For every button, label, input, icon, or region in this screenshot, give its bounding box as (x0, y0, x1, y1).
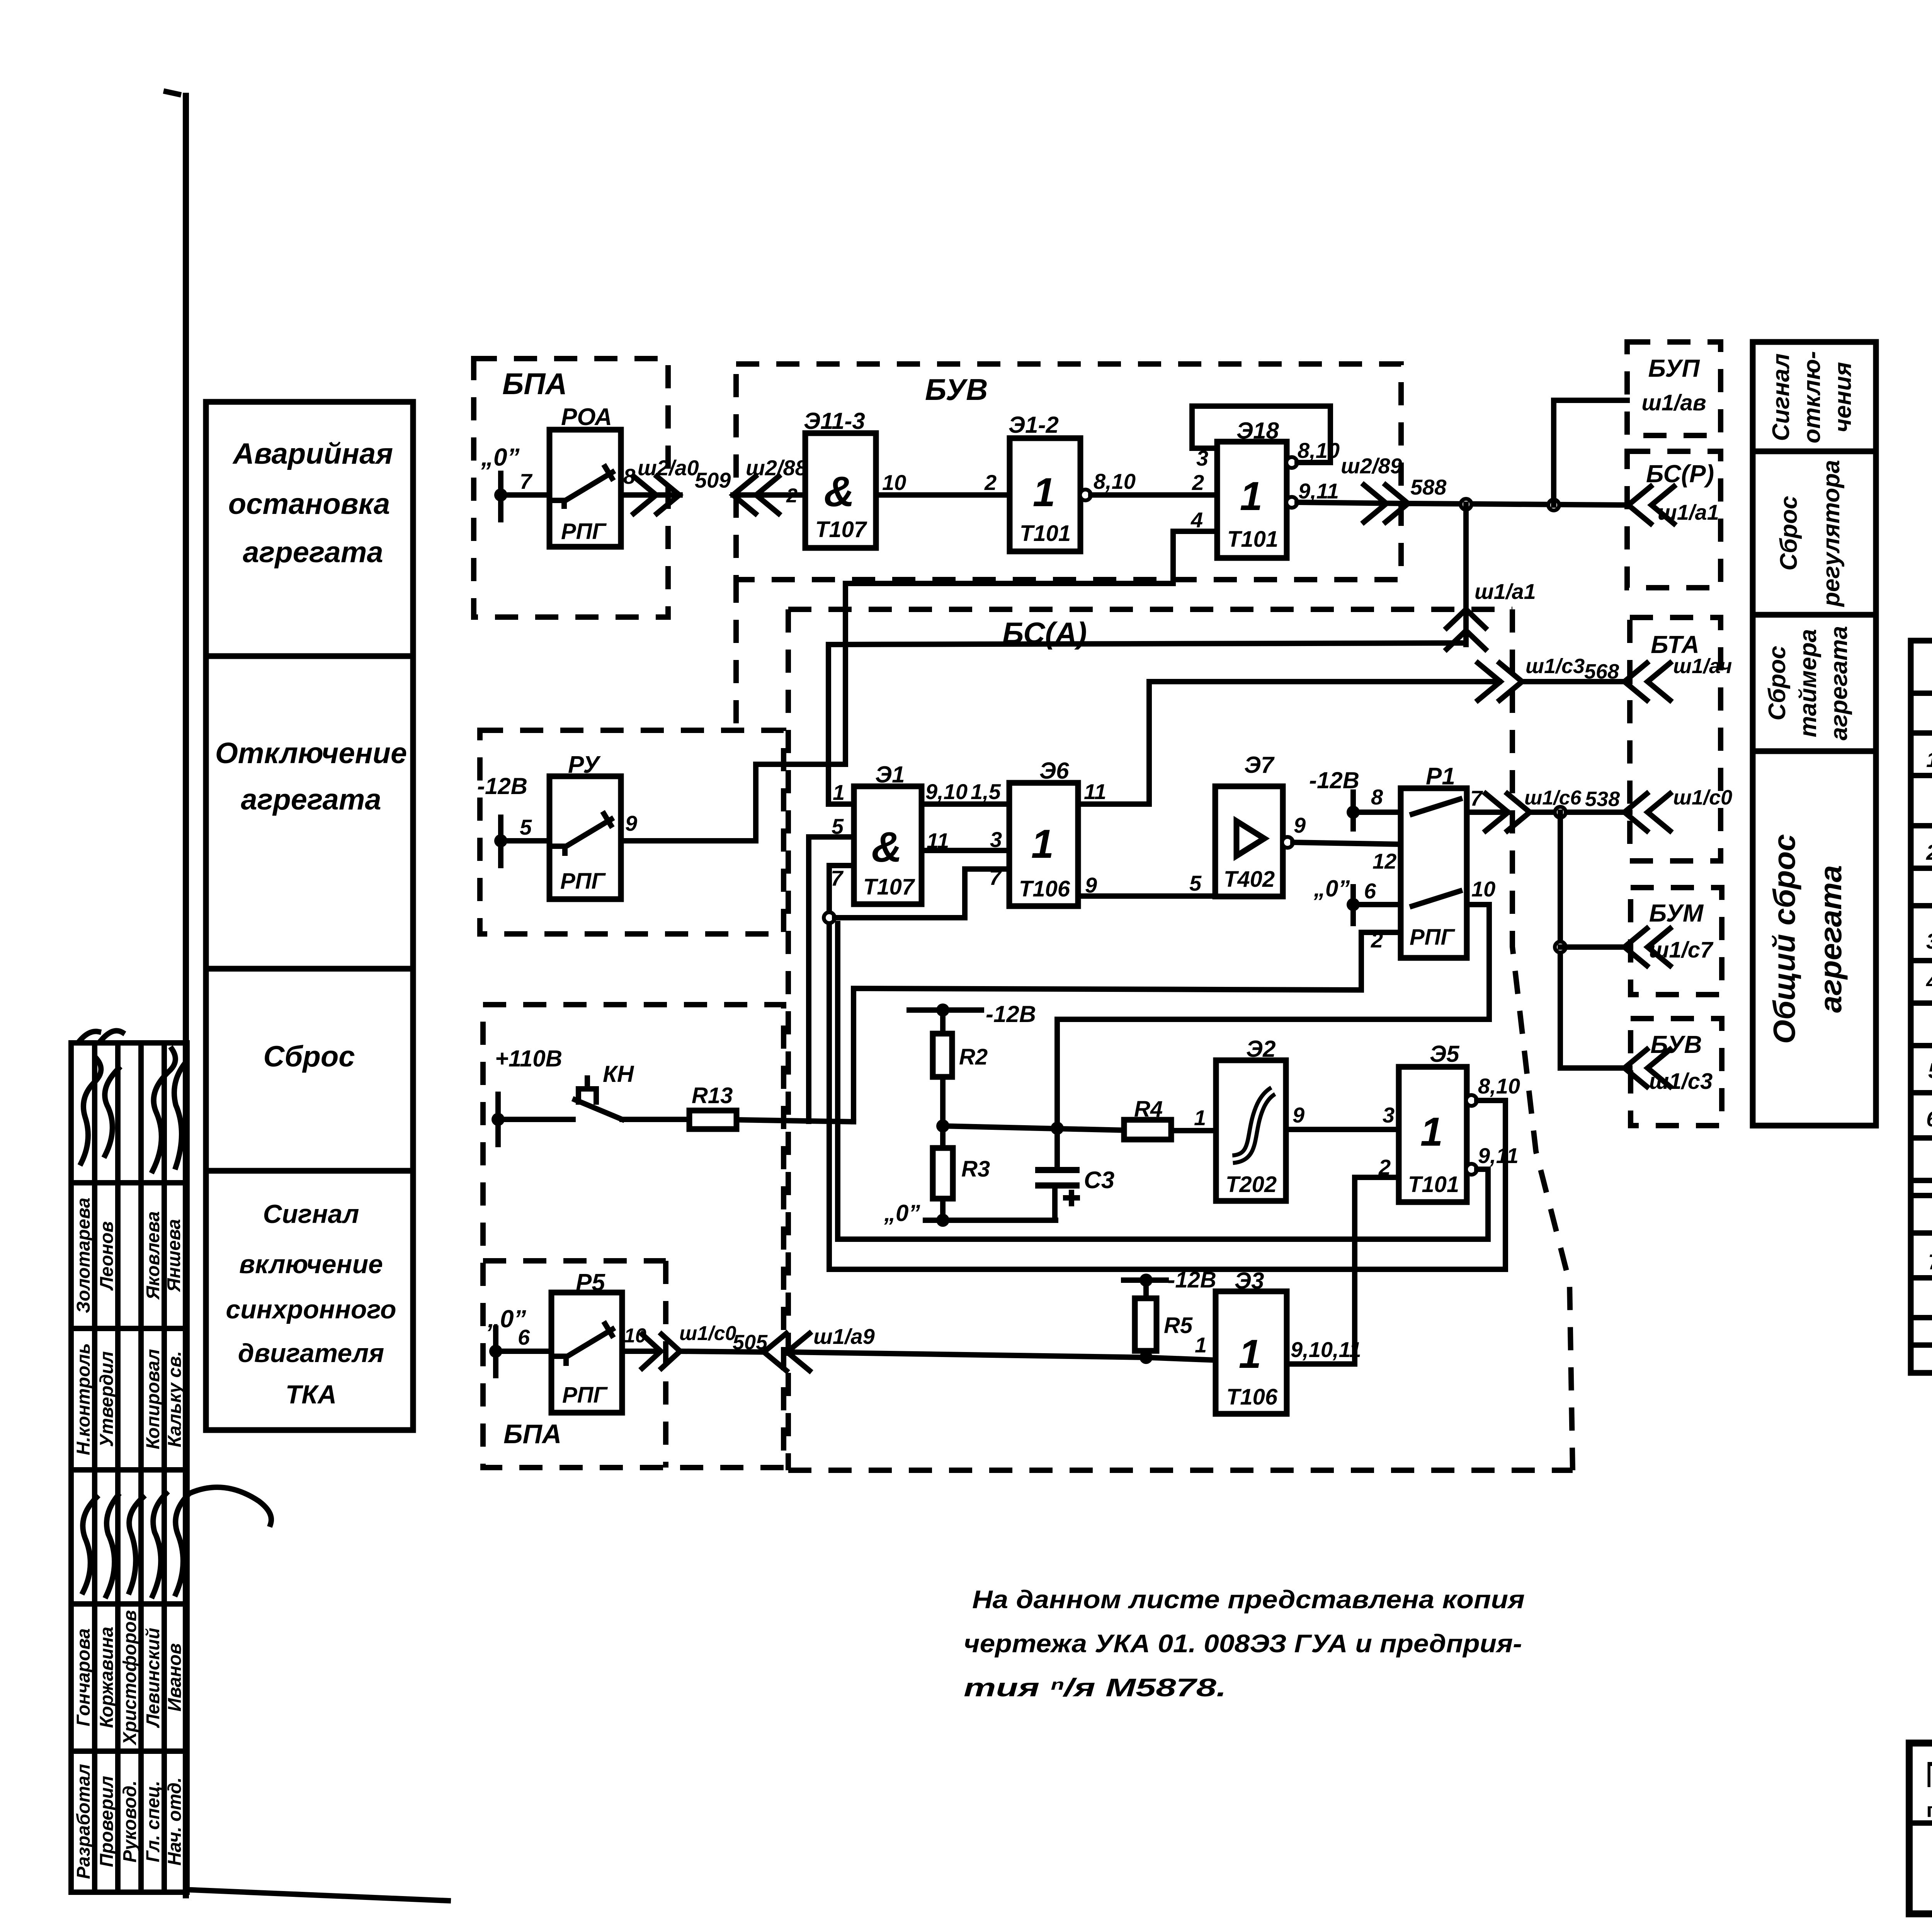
wire Э2 out 9 to Э5 pin 3 (1286, 1127, 1399, 1132)
svg-text:ш1/с6: ш1/с6 (1524, 787, 1582, 809)
wire Р1 pin7 out (1467, 810, 1507, 815)
svg-text:5: 5 (520, 815, 532, 839)
svg-text:БТА: БТА (1651, 631, 1699, 658)
svg-text:Кальку св.: Кальку св. (165, 1351, 185, 1447)
wire riser to Р1 pin 2 (854, 932, 1401, 1122)
svg-text:ш1/с0: ш1/с0 (679, 1322, 736, 1345)
svg-text:Э11-3: Э11-3 (804, 408, 865, 434)
svg-text:ш1/с0: ш1/с0 (1673, 786, 1732, 809)
svg-text:Иванов: Иванов (165, 1643, 185, 1712)
+110В supply node (492, 1046, 562, 1145)
svg-text:Яковлева: Яковлева (143, 1211, 163, 1301)
function label box: Аварийная остановка агрегата (206, 402, 413, 656)
signature table roles group 2 (rotated) (73, 1764, 185, 1879)
-12В supply node for R2 (909, 1001, 1036, 1027)
wire arrow to Э11-3 (733, 492, 805, 498)
svg-text:„0”: „0” (481, 443, 520, 471)
table row 6 БУП (1926, 1097, 1932, 1175)
svg-text:таймера: таймера (1795, 629, 1821, 737)
wire Э1 pin7 riser and junction circle (824, 866, 965, 1269)
svg-text:3: 3 (1926, 929, 1932, 953)
svg-text:3: 3 (1383, 1103, 1395, 1127)
signature table roles group 1 (rotated) (73, 1343, 185, 1455)
svg-text:538: 538 (1585, 787, 1620, 811)
svg-text:чения: чения (1830, 362, 1856, 432)
svg-text:БУВ: БУВ (1650, 1031, 1702, 1058)
svg-text:Т106: Т106 (1019, 876, 1070, 901)
svg-text:БУВ: БУВ (925, 372, 988, 406)
svg-text:6: 6 (518, 1325, 530, 1349)
wire Э6 out 11 to ш1/с3 (1078, 682, 1499, 804)
wire Э5 9,11 feedback (838, 923, 1488, 1239)
wire -12В node to РУ (501, 838, 549, 844)
wire Р1 pin10 to R4/C3 node (1057, 905, 1489, 1128)
table row 7 БС(Р) (1928, 1238, 1932, 1313)
svg-text:Копировал: Копировал (143, 1349, 163, 1449)
title block frame (1909, 1743, 1932, 1914)
wire Э7 to Р1 pin 12 (1293, 842, 1401, 844)
connector arrow ш1/с3 (out) (1478, 655, 1585, 700)
svg-text:1: 1 (1194, 1105, 1206, 1130)
svg-text:9,11: 9,11 (1478, 1143, 1519, 1168)
svg-text:Утвердил: Утвердил (97, 1351, 117, 1447)
connector block БТА (1630, 617, 1721, 861)
svg-text:Гончарова: Гончарова (73, 1628, 94, 1726)
svg-text:1: 1 (1195, 1333, 1207, 1357)
svg-text:Отключение: Отключение (215, 737, 407, 770)
svg-text:R13: R13 (692, 1083, 733, 1108)
signature table grid (71, 1043, 187, 1892)
svg-text:ш1/а1: ш1/а1 (1475, 579, 1536, 604)
wire node to Р5 (496, 1349, 551, 1354)
svg-text:Т107: Т107 (863, 874, 915, 900)
connector arrow ш1/с7 into БУМ (1624, 929, 1670, 966)
svg-text:Т202: Т202 (1226, 1172, 1277, 1197)
connector arrow ш1/с3 into БУВ (1624, 1049, 1670, 1087)
svg-text:2: 2 (1192, 470, 1204, 495)
svg-text:Э7: Э7 (1244, 752, 1275, 778)
signal name box: Общий сброс агрегата (1753, 751, 1876, 1126)
svg-text:ш2/а0: ш2/а0 (638, 456, 699, 480)
svg-text:ш1/с7: ш1/с7 (1649, 937, 1714, 963)
connector block БУВ (right) (1631, 1019, 1722, 1126)
svg-text:включение: включение (239, 1250, 383, 1279)
svg-text:Э6: Э6 (1039, 758, 1069, 784)
svg-text:2: 2 (1926, 840, 1932, 864)
signature scribbles group 1 (81, 1049, 185, 1171)
svg-text:7: 7 (1928, 1250, 1932, 1274)
svg-text:Аварийная: Аварийная (232, 437, 393, 470)
table row 2 БУВ (1926, 828, 1932, 903)
svg-text:5: 5 (1928, 1058, 1932, 1083)
svg-text:двигателя: двигателя (238, 1338, 384, 1368)
svg-text:РОА: РОА (561, 404, 612, 430)
svg-text:РПГ: РПГ (562, 1383, 608, 1408)
svg-text:6: 6 (1364, 879, 1376, 903)
connector arrow ш1/с6 (out) (1486, 787, 1582, 831)
relay Р5 (551, 1269, 622, 1413)
page left border (166, 92, 186, 1895)
connector arrow ш1/с0 into БТА (1624, 786, 1732, 831)
svg-text:ш1/с3: ш1/с3 (1649, 1069, 1713, 1094)
net 588 line to БС(Р) (1408, 475, 1628, 510)
svg-text:агрегата: агрегата (1813, 865, 1848, 1013)
signature table names group 2 (rotated) (73, 1610, 185, 1746)
svg-text:остановка: остановка (228, 488, 390, 520)
svg-text:9: 9 (1293, 1103, 1304, 1127)
wire Э18 out to ш2/89 arrow (1297, 502, 1408, 503)
wire Р5 pin10 to arrow (622, 1349, 657, 1354)
svg-text:синхронного: синхронного (226, 1295, 396, 1324)
svg-text:„0”: „0” (1313, 876, 1350, 901)
wire 588 node down to БС(А) (ш1/а1) (1447, 504, 1536, 649)
connector arrow ш2/88 (in) (733, 456, 808, 514)
svg-text:г Ростов-на-Дону 1976г: г Ростов-на-Дону 1976г (1926, 1799, 1932, 1821)
svg-text:Сброс: Сброс (1776, 496, 1802, 570)
svg-text:регулятора: регулятора (1818, 460, 1845, 607)
table row 1 БПА (1926, 738, 1932, 825)
wire R4 to Э2 pin 1 (1171, 1128, 1216, 1133)
svg-text:агрегата: агрегата (243, 536, 383, 569)
svg-text:1: 1 (833, 780, 845, 804)
svg-text:Золотарева: Золотарева (73, 1197, 94, 1313)
svg-text:9,10: 9,10 (925, 779, 968, 804)
svg-text:8: 8 (1371, 785, 1383, 809)
svg-text:Руковод.: Руковод. (120, 1781, 140, 1862)
relay РУ (549, 752, 621, 899)
svg-text:ш1/а1: ш1/а1 (1658, 500, 1719, 524)
svg-text:КН: КН (603, 1061, 634, 1087)
connector arrow ш1/ач into БТА (1624, 655, 1732, 700)
svg-text:5: 5 (832, 814, 844, 838)
svg-text:чертежа УКА 01. 008ЭЗ ГУА: чертежа УКА 01. 008ЭЗ ГУА и предприя- (964, 1629, 1522, 1658)
connector arrow ш2/а0 (out) (634, 456, 699, 514)
svg-text:Т402: Т402 (1224, 867, 1275, 892)
table row 4 БУМ (1926, 962, 1932, 1040)
svg-text:Христофоров: Христофоров (120, 1610, 140, 1746)
-12В supply node for Р1 (1309, 767, 1401, 829)
svg-text:отклю-: отклю- (1799, 351, 1825, 444)
svg-text:3: 3 (1196, 446, 1208, 470)
-12В supply node for РУ (477, 773, 527, 866)
svg-text:3: 3 (990, 827, 1002, 852)
output circle 9,11 of Э18 (1286, 479, 1339, 508)
wire Э5 8,10 feedback to Э1 pin7 (829, 1100, 1505, 1269)
svg-text:12: 12 (1372, 849, 1396, 873)
output circle 8,10 of Э5 (1466, 1074, 1520, 1106)
svg-text:2: 2 (1371, 928, 1383, 952)
node "0" rail (884, 1200, 1056, 1227)
svg-text:ш1/ав: ш1/ав (1641, 390, 1706, 415)
svg-text:-12В: -12В (1309, 767, 1359, 793)
connector block БС(Р) (1627, 451, 1721, 588)
svg-text:ш2/89: ш2/89 (1341, 454, 1402, 478)
wire РОА to arrow (621, 492, 680, 498)
wire node 538 down to БУМ and БУВ (1555, 812, 1630, 1068)
logic element Э3 (Т106) (1216, 1268, 1287, 1414)
svg-text:Нач. отд.: Нач. отд. (165, 1777, 185, 1866)
wire Э1 out 11 to Э6 pin 3 (922, 848, 1009, 853)
svg-text:Разработал: Разработал (73, 1764, 94, 1879)
svg-text:11: 11 (1084, 779, 1106, 804)
svg-text:9: 9 (625, 811, 637, 835)
signature scribbles group 2 (83, 1487, 271, 1596)
output circle 8,10 of Э1-2 (1080, 469, 1136, 500)
wire Э5 pin 2 from Э3 (1287, 1177, 1399, 1364)
svg-text:+110В: +110В (495, 1046, 562, 1071)
wire to node and БТА ш1/с0 (1530, 807, 1630, 818)
svg-text:&: & (871, 823, 902, 871)
resistor R13 (689, 1083, 736, 1129)
svg-text:-12В: -12В (1168, 1267, 1216, 1293)
svg-text:7: 7 (831, 866, 844, 890)
dashed block РУ section (480, 730, 784, 934)
wire 588 node up to БУП (1554, 400, 1627, 505)
connector arrow ш1/а9 (in) (764, 1324, 875, 1371)
svg-text:9,10,11: 9,10,11 (1291, 1337, 1361, 1362)
svg-text:4: 4 (1190, 508, 1203, 532)
svg-text:2: 2 (984, 470, 997, 495)
parts table grid (1911, 641, 1932, 1373)
dashed block БПА (bottom) relay Р5 region label zone (487, 1305, 526, 1376)
svg-text:8,10: 8,10 (1298, 438, 1340, 463)
wire riser to Э1 pin 5 (809, 837, 854, 1121)
svg-text:агрегата: агрегата (241, 783, 381, 816)
node R2/R3 junction (936, 1119, 949, 1133)
svg-text:агрегата: агрегата (1826, 626, 1852, 740)
svg-text:тия ⁿ/я М5878.: тия ⁿ/я М5878. (964, 1673, 1226, 1702)
relay РОА (549, 404, 621, 547)
logic element Э11-3 (AND, Т107) (804, 408, 876, 548)
function label box: Сброс (206, 969, 413, 1171)
svg-text:7: 7 (1470, 786, 1483, 810)
wire Э1 pin1 from ш1/а1 line (828, 643, 1466, 804)
logic element Э1-2 (OR/NOT, Т101) (1009, 412, 1080, 551)
svg-text:&: & (824, 468, 854, 515)
connector arrow ш2/89 (out) (1341, 454, 1408, 522)
wire РУ pin9 to Э18 pin4 (621, 531, 1217, 841)
svg-text:ТКА: ТКА (286, 1380, 337, 1409)
relay Р1 (1401, 763, 1467, 958)
wire to БТА (1522, 679, 1630, 684)
feedback loop wire Э18 pin 8,10 to pin 3 (1192, 406, 1340, 470)
svg-text:588: 588 (1410, 475, 1447, 499)
node C3 top junction (1051, 1122, 1064, 1135)
svg-text:РПГ: РПГ (560, 869, 606, 894)
svg-text:Э5: Э5 (1430, 1041, 1460, 1067)
resistor R4 (1124, 1097, 1171, 1139)
wire Э1 out 9,10 to Э6 in 1,5 (922, 801, 1009, 807)
date scribbles top band (79, 1031, 122, 1042)
svg-text:1: 1 (1420, 1109, 1443, 1155)
svg-text:-12В: -12В (986, 1001, 1036, 1027)
dashed block +110В / БПА (bottom-left) (483, 1005, 784, 1468)
svg-text:Яншева: Яншева (164, 1219, 184, 1293)
amplifier Э7 (Т402) (1215, 752, 1283, 896)
logic element Э6 (Т106) (1009, 758, 1078, 906)
svg-text:R5: R5 (1164, 1313, 1193, 1338)
wire R2/R3 node to R4 (943, 1126, 1124, 1130)
pin labels Э1 (831, 779, 968, 890)
svg-text:Т107: Т107 (815, 517, 867, 542)
svg-text:6: 6 (1926, 1107, 1932, 1131)
svg-text:ш1/а9: ш1/а9 (813, 1324, 875, 1349)
connector arrow ш1/с0 (out) (642, 1322, 736, 1368)
resistor R3 (933, 1126, 990, 1220)
connector arrow ш1/а1 into БС(Р) (1628, 486, 1674, 524)
svg-text:Т101: Т101 (1408, 1172, 1459, 1197)
svg-text:БУМ: БУМ (1649, 899, 1704, 927)
svg-text:Гл. спец.: Гл. спец. (143, 1781, 163, 1862)
svg-text:1: 1 (1033, 470, 1055, 515)
svg-text:4: 4 (1926, 969, 1932, 994)
wire Э6 out 9 to Э7 in 5 (1078, 893, 1215, 899)
svg-text:10: 10 (1471, 877, 1495, 901)
wire R13 to risers (736, 1120, 854, 1122)
svg-text:Сигнал: Сигнал (263, 1199, 359, 1229)
svg-text:-12В: -12В (477, 773, 527, 799)
svg-text:РПГ: РПГ (1410, 925, 1455, 950)
signal name box: Сигнал отключения (1753, 342, 1876, 451)
wire ш1/а9 to Э3 pin 1 (679, 1351, 1216, 1360)
svg-text:Т101: Т101 (1020, 521, 1071, 546)
wire Э6 pin7 riser (965, 869, 1009, 918)
svg-text:Коржавина: Коржавина (97, 1627, 117, 1728)
svg-text:9,11: 9,11 (1298, 479, 1339, 503)
logic element Э1 (AND, Т107) (854, 762, 922, 904)
dashed block БС(А) (788, 609, 1573, 1470)
resistor R5 (1135, 1280, 1193, 1364)
svg-text:8,10: 8,10 (1094, 469, 1136, 493)
note text (handwritten copy note) (964, 1585, 1525, 1702)
svg-text:1,5: 1,5 (971, 779, 1001, 804)
svg-text:ш1/с3: ш1/с3 (1526, 655, 1585, 678)
signal name box: Сброс таймера агрегата (1753, 615, 1876, 751)
output circle 9,11 of Э5 (1466, 1143, 1519, 1175)
capacitor C3 (1038, 1128, 1114, 1220)
"0" node for Р1 (1313, 876, 1401, 923)
signal name box: Сброс регулятора (1753, 451, 1876, 615)
svg-text:„0”: „0” (884, 1200, 920, 1226)
resistor R2 (933, 1010, 988, 1126)
svg-text:1: 1 (1926, 747, 1932, 772)
svg-text:Леонов: Леонов (97, 1221, 117, 1291)
table row 5 БТА (1928, 1051, 1932, 1094)
svg-text:9: 9 (1294, 813, 1306, 837)
integrator Э2 (Т202) (1216, 1036, 1286, 1201)
svg-text:Сброс: Сброс (263, 1040, 355, 1073)
output circle 9 of Э7 (1282, 813, 1306, 848)
dashed block БУВ (736, 364, 1401, 730)
svg-text:8,10: 8,10 (1478, 1074, 1520, 1098)
svg-text:R2: R2 (959, 1044, 988, 1070)
svg-text:С3: С3 (1084, 1167, 1114, 1194)
svg-text:Сброс: Сброс (1764, 646, 1791, 720)
logic element Э18 (Т101) (1217, 418, 1287, 558)
svg-text:БПА: БПА (502, 367, 567, 401)
function label box: Отключение агрегата (206, 656, 413, 969)
svg-text:Общий сброс: Общий сброс (1767, 834, 1801, 1044)
svg-text:Проверил: Проверил (97, 1776, 117, 1867)
pin labels Э6 (971, 779, 1106, 897)
svg-text:509: 509 (695, 468, 731, 492)
svg-text:10: 10 (882, 470, 906, 495)
svg-text:Н.контроль: Н.контроль (73, 1343, 94, 1455)
svg-text:7: 7 (520, 469, 533, 493)
svg-text:БПА: БПА (503, 1419, 561, 1449)
table row 3 БС(А) (1926, 919, 1932, 962)
svg-text:Э1-2: Э1-2 (1009, 412, 1059, 438)
svg-text:На данном листе представл: На данном листе представлена копия (972, 1585, 1525, 1614)
node "0" input of РОА (481, 443, 520, 520)
function label box: Сигнал включение синхронного двигателя ТКА (206, 1171, 413, 1430)
wire Э1-2 to Э18 (1091, 492, 1217, 498)
svg-text:Сигнал: Сигнал (1768, 354, 1794, 441)
svg-text:1: 1 (1031, 821, 1054, 867)
svg-text:Т106: Т106 (1226, 1384, 1278, 1410)
svg-text:R3: R3 (961, 1156, 990, 1182)
svg-text:БУП: БУП (1648, 354, 1700, 382)
dashed block БПА (top) (474, 359, 668, 617)
svg-text:1: 1 (1240, 474, 1262, 519)
connector block БУП (1627, 342, 1721, 435)
svg-text:РПГ: РПГ (561, 519, 607, 544)
svg-text:Т101: Т101 (1227, 527, 1278, 552)
title block left cell (1909, 1754, 1932, 1917)
pushbutton КН (498, 1061, 689, 1119)
logic element Э5 (Т101) (1399, 1041, 1467, 1202)
svg-text:5: 5 (1189, 871, 1202, 895)
svg-text:БС(Р): БС(Р) (1646, 460, 1714, 488)
wire Э11-3 to Э1-2 (876, 492, 1010, 498)
bottom-left stray line (192, 1890, 448, 1901)
svg-text:1: 1 (1239, 1332, 1261, 1377)
signature table names group 1 (rotated) (73, 1197, 184, 1313)
-12В supply node for R5 (1124, 1267, 1216, 1293)
svg-text:ГИПРОСТРОЙДОРМАШ: ГИПРОСТРОЙДОРМАШ (1926, 1754, 1932, 1795)
svg-text:Левинский: Левинский (143, 1628, 163, 1728)
wire node to РОА (501, 492, 549, 498)
connector block БУМ (1631, 888, 1722, 995)
